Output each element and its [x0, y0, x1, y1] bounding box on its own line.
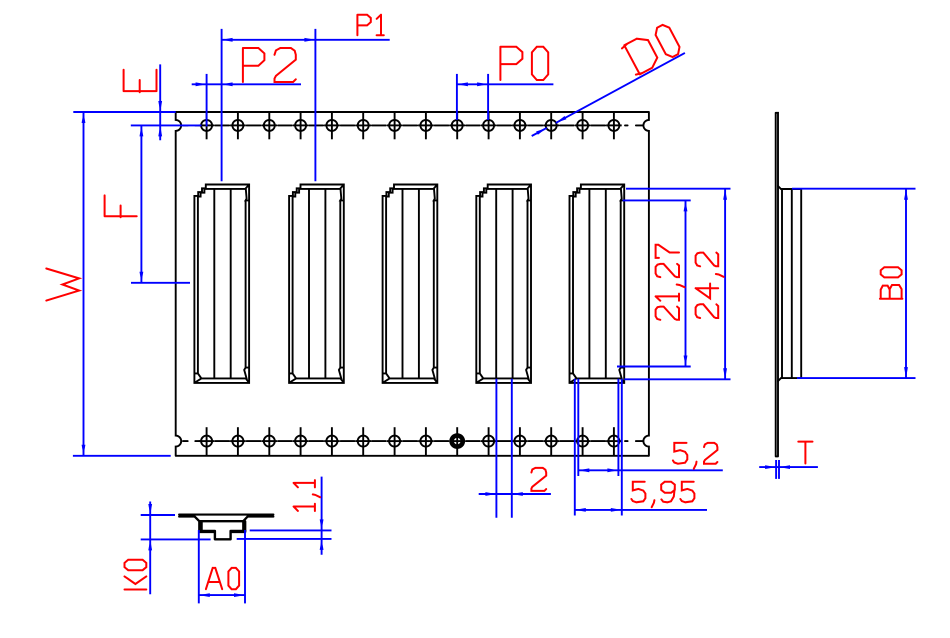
dim W vertical line	[83, 112, 85, 456]
sprocket centerline bottom	[183, 440, 643, 442]
dim 21,27 line	[685, 200, 687, 366]
label D0 (rotated)	[622, 25, 680, 75]
section view pocket floor and channel	[199, 531, 245, 539]
dim K0 extensions	[141, 514, 175, 516]
dim E extension hole centerline	[131, 124, 202, 126]
sprocket hole top 5	[326, 120, 337, 131]
dim B0 line	[905, 189, 907, 378]
dim 1,1 extensions	[250, 529, 332, 531]
side view pocket depth profile	[778, 186, 801, 381]
dim B0 extensions	[792, 188, 916, 190]
sprocket hole bottom 5	[326, 436, 337, 447]
component pocket 1	[194, 185, 249, 383]
dim W bottom extension	[73, 455, 171, 457]
dim F vertical line	[140, 125, 142, 282]
dim P1 extension at pocket 2 center	[314, 29, 316, 181]
dim T extensions	[775, 460, 777, 479]
dim E vertical line	[159, 64, 161, 140]
dim K0 line	[149, 502, 151, 595]
label K0 (rotated)	[125, 560, 147, 590]
label W (rotated)	[46, 269, 79, 301]
dim P1/P2 extension at pocket 1 center	[221, 29, 223, 181]
component pocket 2	[289, 185, 344, 383]
sprocket hole top 11	[514, 120, 525, 131]
sprocket hole bottom 4	[295, 436, 306, 447]
dim F bottom extension	[131, 282, 190, 284]
sprocket hole top 7	[389, 120, 400, 131]
dim 5,95 extensions	[574, 379, 576, 516]
carrier tape top edge	[176, 111, 649, 113]
label E (rotated)	[124, 70, 157, 93]
sprocket hole top 6	[358, 120, 369, 131]
sprocket hole bottom 1	[201, 436, 212, 447]
sprocket hole bottom 6	[358, 436, 369, 447]
dim 5,95 line	[575, 509, 707, 511]
sprocket hole top 3	[264, 120, 275, 131]
label P1	[357, 15, 383, 36]
dim P2 line	[192, 83, 301, 85]
dim D0 leader	[532, 128, 547, 136]
label P2	[243, 48, 296, 82]
sprocket hole bottom 14	[608, 436, 619, 447]
label T	[798, 442, 812, 464]
dim 2 extensions	[495, 379, 497, 518]
sprocket hole bottom 3	[264, 436, 275, 447]
label A0	[206, 568, 239, 589]
label 5,95	[631, 482, 694, 508]
sprocket hole bottom 12	[546, 436, 557, 447]
sprocket hole top 14	[608, 120, 619, 131]
sprocket hole top 2	[232, 120, 243, 131]
dim 24,2 extensions	[626, 188, 731, 190]
sprocket hole bottom 10	[483, 436, 494, 447]
dim P2 extension at hole 1	[206, 74, 208, 127]
dim 2 line	[479, 493, 551, 495]
sprocket hole bottom 13	[577, 436, 588, 447]
sprocket hole bottom 11	[514, 436, 525, 447]
label B0 (rotated)	[880, 267, 903, 299]
component pocket 3	[383, 185, 438, 383]
dim A0 line	[199, 594, 245, 596]
dim 5,2 line	[578, 469, 723, 471]
component pocket 4	[476, 185, 531, 383]
sprocket centerline top	[183, 124, 643, 126]
label 1,1 (rotated)	[294, 480, 320, 511]
sprocket hole bottom 2	[232, 436, 243, 447]
dim 5,2 extensions	[577, 379, 579, 476]
label 24,2 (rotated)	[696, 253, 724, 318]
dim P0 extensions	[456, 74, 458, 120]
sprocket hole bottom 9	[452, 436, 463, 447]
dim T line	[759, 466, 818, 468]
sprocket hole bottom 8	[420, 436, 431, 447]
sprocket hole top 10	[483, 120, 494, 131]
sprocket hole top 12	[546, 120, 557, 131]
label 5,2	[673, 443, 718, 469]
sprocket hole top 9	[452, 120, 463, 131]
dim E extension top edge line	[73, 111, 175, 113]
dim 1,1 line	[321, 477, 323, 555]
sprocket hole bottom 7	[389, 436, 400, 447]
label 21,27 (rotated)	[656, 245, 685, 320]
sprocket hole top 4	[295, 120, 306, 131]
label F (rotated)	[105, 195, 137, 217]
dim 24,2 line	[724, 189, 726, 380]
sprocket hole top 8	[420, 120, 431, 131]
section view pocket profile	[195, 517, 248, 531]
section view tape surface	[179, 515, 273, 517]
label 2	[531, 468, 546, 491]
label P0	[500, 47, 548, 80]
carrier tape right edge with notches	[643, 112, 649, 456]
sprocket hole top 1	[201, 120, 212, 131]
dim P1 line	[222, 39, 390, 41]
dim A0 extensions	[198, 530, 200, 603]
component pocket 5	[570, 185, 625, 383]
carrier tape left edge with notches	[176, 112, 182, 456]
dim P0 line	[457, 83, 554, 85]
carrier tape bottom edge	[176, 455, 649, 457]
side view tape (edge-on)	[776, 113, 778, 457]
sprocket hole top 13	[577, 120, 588, 131]
dim 21,27 extensions	[623, 199, 691, 201]
